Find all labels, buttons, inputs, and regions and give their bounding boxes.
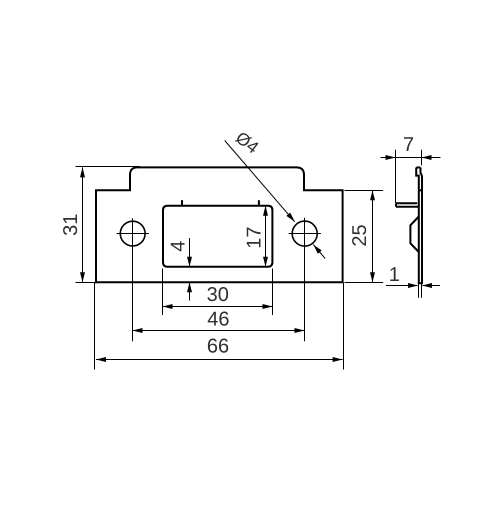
dimension 7 arrow right (outside pointing left) (422, 155, 432, 160)
side view fold tick (419, 189, 422, 191)
hole right centerline vertical (also ext line of dim 46) (304, 218, 306, 342)
dimension 1 arrow right (outside pointing left) (422, 283, 432, 288)
dimension 4 line lower (189, 282, 191, 300)
plate outline (front view) (96, 167, 343, 282)
dimension 1 line left (386, 285, 418, 287)
svg-text:30: 30 (207, 284, 229, 306)
dimension 30 arrow left (163, 304, 173, 309)
side view flange left cap (395, 203, 397, 206)
hole left centerline horizontal (117, 233, 149, 235)
side view flange bottom (396, 206, 419, 208)
dimension 25 arrow top (370, 190, 375, 200)
dimension 30 line (163, 306, 273, 308)
side view flange top (396, 202, 417, 204)
side view tab bump (410, 217, 418, 253)
dimension 7 extension right (421, 150, 423, 165)
side view top hook top (416, 167, 420, 169)
diameter leader tail lower right (313, 245, 325, 259)
dimension 1 arrow left (outside pointing right) (408, 283, 418, 288)
diameter leader line (225, 141, 295, 222)
svg-text:17: 17 (244, 226, 266, 248)
side view plate right face (421, 168, 423, 284)
dimension 25 extension bottom (345, 282, 384, 284)
dimension 66 extension left (94, 283, 96, 370)
dimension 31 extension bottom (76, 282, 97, 284)
svg-text:1: 1 (389, 264, 400, 286)
dimension 4 arrow upper (187, 257, 192, 267)
dimension 4 line upper (189, 238, 191, 267)
svg-text:25: 25 (349, 224, 371, 246)
svg-text:66: 66 (207, 336, 229, 358)
dimension 30 arrow right (263, 304, 273, 309)
hole left circle (120, 221, 145, 246)
dimension 66 extension right (343, 283, 345, 370)
dimension 25 line (372, 190, 374, 282)
diameter leader arrow at hole (286, 213, 294, 222)
side view plate left face (416, 168, 419, 284)
diameter leader arrow lower right (313, 245, 321, 254)
dimension 31 arrow bottom (80, 272, 85, 282)
hole right centerline horizontal (289, 233, 321, 235)
hole left centerline vertical (also ext line of dim 46) (132, 218, 134, 341)
dimension 17 arrow top (263, 206, 268, 216)
dimension 46 arrow right (295, 328, 305, 333)
dimension 4 arrow lower (187, 282, 192, 292)
dimension 1 line right (423, 285, 441, 287)
svg-text:4: 4 (167, 241, 189, 252)
dimension 17 arrow bottom (263, 257, 268, 267)
dimension 31 line (82, 167, 84, 282)
dimension 7 line (381, 157, 441, 159)
dimension 66 line (96, 359, 343, 361)
dimension 25 arrow bottom (370, 272, 375, 282)
dimension 17 line (265, 206, 267, 267)
dimension 1 extension left below plate (418, 284, 420, 298)
cutout tongue tick left (181, 200, 183, 206)
svg-text:31: 31 (60, 214, 82, 236)
dimension 25 extension top (345, 190, 384, 192)
dimension 30 extension left (162, 269, 164, 316)
dimension 66 arrow right (333, 357, 343, 362)
dimension 46 line (133, 330, 305, 332)
cutout rectangle (163, 206, 272, 267)
side view plate bottom cap (418, 282, 423, 284)
cutout tongue tick right (258, 200, 260, 206)
dimension 46 arrow left (133, 328, 143, 333)
svg-text:7: 7 (403, 134, 414, 156)
hole right circle (292, 221, 317, 246)
svg-text:46: 46 (207, 308, 229, 330)
dimension 1 extension right below plate (421, 284, 423, 298)
dimension 31 extension top (76, 166, 141, 168)
dimension 7 arrow left (outside pointing right) (386, 155, 396, 160)
dimension 7 extension left (395, 150, 397, 203)
dimension 30 extension right (272, 269, 274, 316)
dimension 31 arrow top (80, 167, 85, 177)
dimension 66 arrow left (96, 357, 106, 362)
